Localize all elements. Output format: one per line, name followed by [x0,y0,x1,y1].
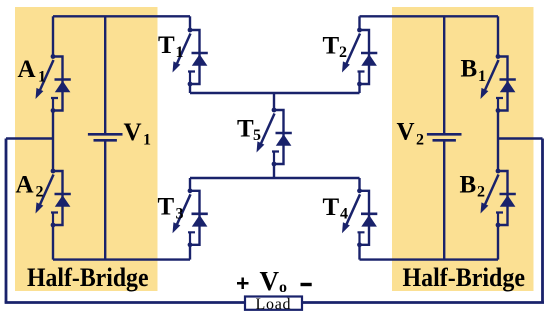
wire V2 bottom [443,142,445,260]
wire outer left [5,139,8,303]
svg-text:2: 2 [36,184,44,201]
wire V1 top [104,16,106,133]
svg-text:2: 2 [416,131,424,148]
wire A-leg bottom [52,225,54,260]
svg-text:2: 2 [339,44,347,61]
switch T1 [173,28,208,87]
svg-text:T: T [323,33,340,60]
wire T3 top stub [189,178,191,191]
svg-text:T: T [158,194,175,221]
svg-text:V: V [124,119,142,146]
svg-text:A: A [16,172,34,199]
wire A-leg top [52,16,54,56]
svg-text:Load: Load [256,296,291,313]
svg-text:Half-Bridge: Half-Bridge [27,263,149,292]
wire left mid tap [6,137,53,139]
svg-text:V: V [397,119,415,146]
minus sign of Vo [301,283,312,286]
svg-text:2: 2 [477,184,485,201]
svg-text:1: 1 [143,131,151,148]
svg-text:T: T [237,116,254,143]
switch T2 [342,28,377,87]
wire B-leg top [497,16,499,56]
wire T5 bottom stub [273,164,275,178]
wire T1 bottom stub [189,84,191,93]
switch A1 [36,54,71,113]
switch T5 [257,108,292,167]
left half-bridge shaded block [15,7,158,291]
wire top rail left [53,15,190,17]
wire B-leg bottom [497,225,499,260]
wire outer right [541,139,544,303]
load box [245,297,302,310]
wire upper mid rail [190,92,360,94]
wire T2 top stub [358,16,360,30]
wire bottom rail [5,301,544,304]
wire V2 top [443,16,445,133]
switch A2 [36,169,71,228]
switch T4 [342,188,377,247]
svg-text:Half-Bridge: Half-Bridge [403,263,526,292]
wire lower mid rail [190,177,360,179]
wire T1 top stub [189,16,191,30]
svg-text:1: 1 [38,69,46,86]
svg-text:o: o [279,279,287,296]
svg-text:A: A [18,56,36,83]
svg-text:T: T [323,194,340,221]
svg-text:1: 1 [176,44,184,61]
wire T3 bottom stub [189,245,191,260]
wire B-leg middle [497,111,499,172]
wire T4 top stub [358,178,360,191]
svg-text:B: B [461,56,478,83]
wire T2 bottom stub [358,84,360,93]
battery V2 [427,134,462,140]
wire T5 top stub [273,93,275,110]
plus sign of Vo [237,278,312,290]
svg-text:1: 1 [478,68,486,85]
wire bottom left [53,258,190,260]
wire T4 bottom stub [358,245,360,260]
battery V1 [88,134,123,140]
switch B1 [481,54,516,113]
svg-text:V: V [260,266,280,296]
wire right mid tap [498,137,543,139]
svg-text:3: 3 [176,206,184,223]
wire top rail right [360,15,499,17]
svg-text:4: 4 [340,206,348,223]
right half-bridge shaded block [392,7,534,291]
wire A-leg middle [52,111,54,172]
svg-text:5: 5 [253,127,261,144]
wire V1 bottom [104,142,106,260]
svg-text:T: T [158,32,175,59]
wire bottom right [360,258,499,260]
switch T3 [173,188,208,247]
svg-text:B: B [460,172,477,199]
switch B2 [481,169,516,228]
